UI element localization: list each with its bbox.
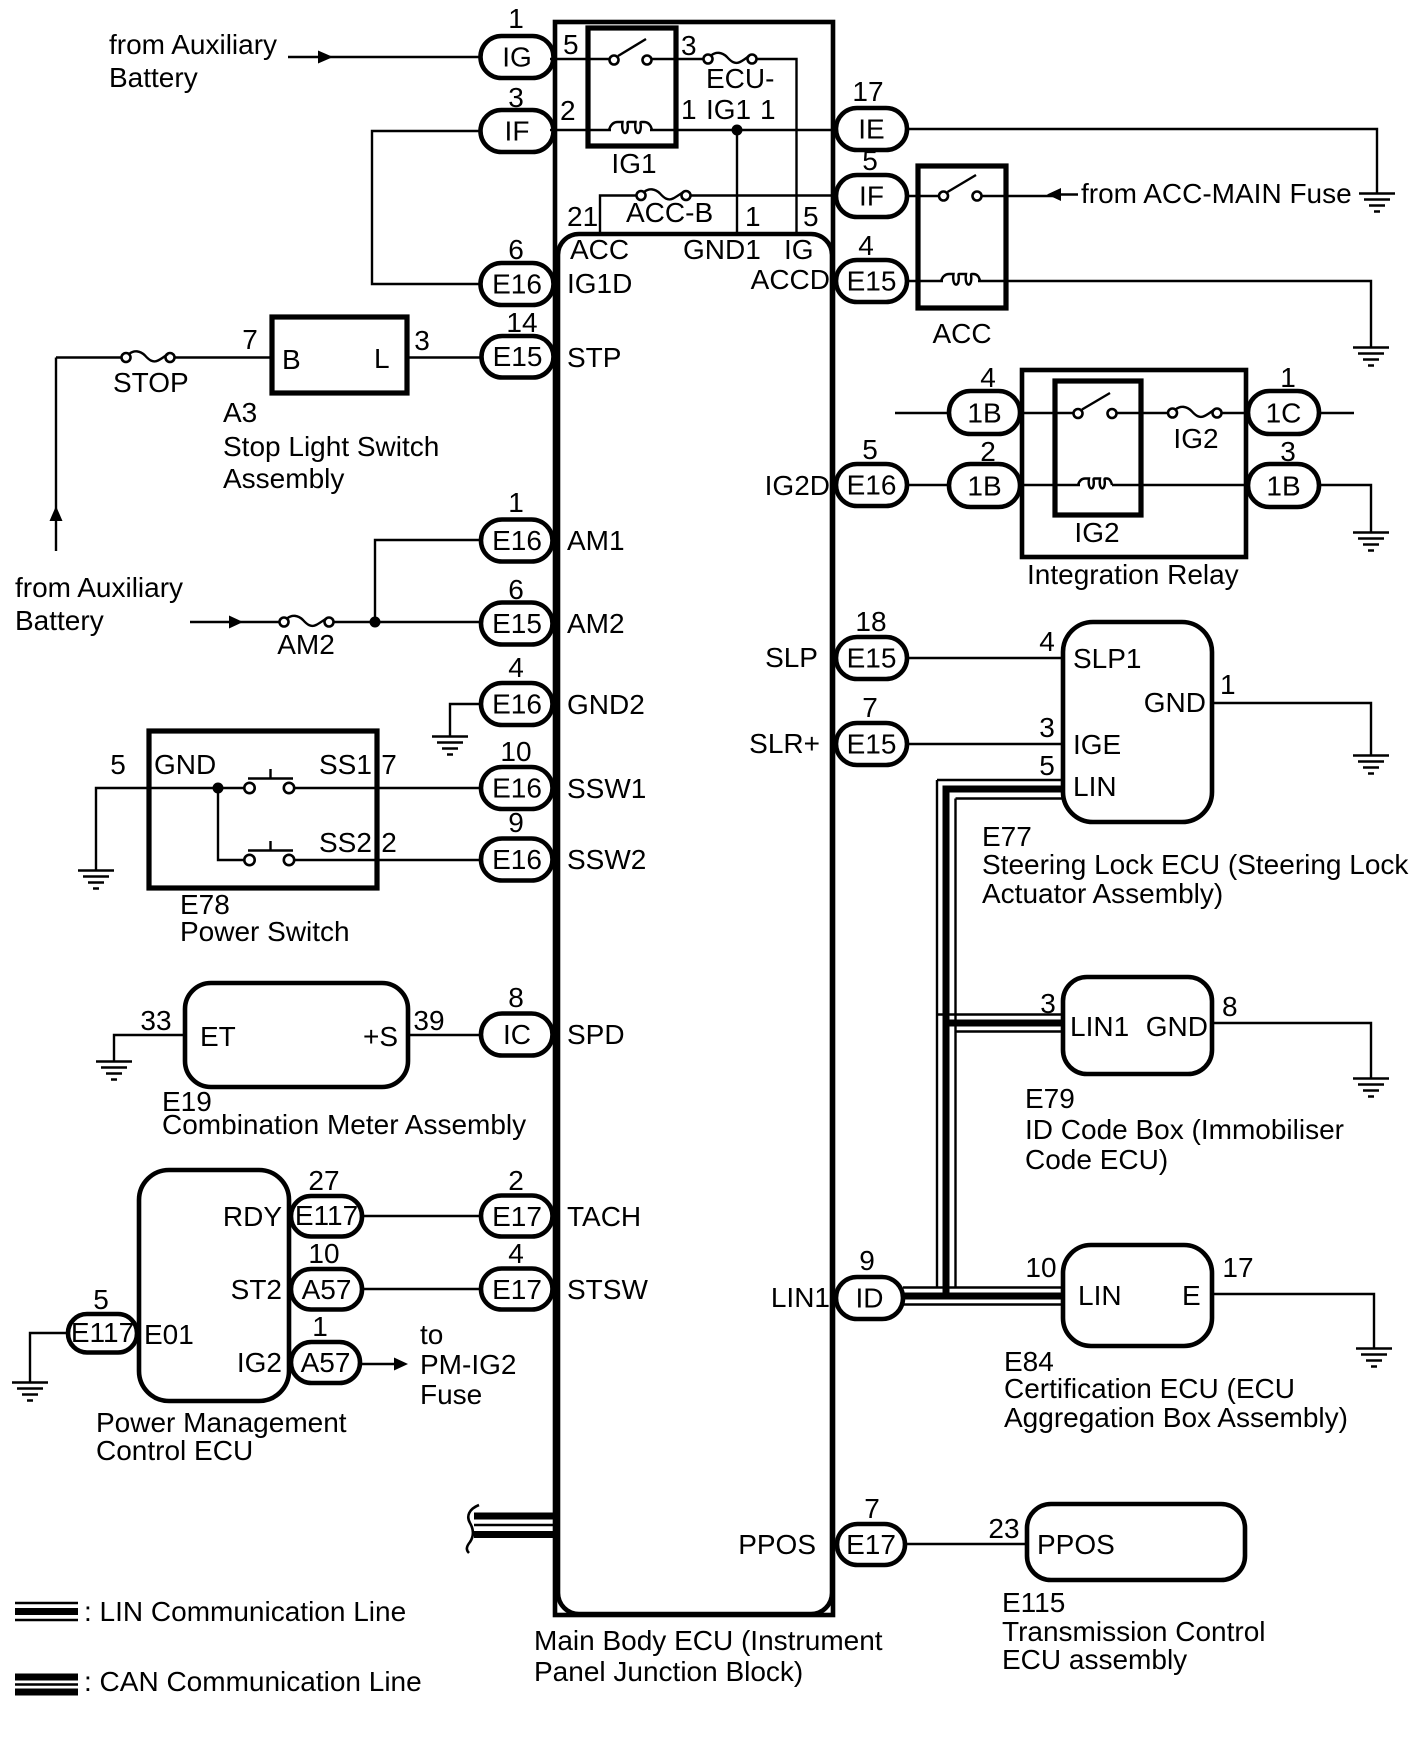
svg-text:PPOS: PPOS bbox=[1037, 1529, 1115, 1560]
svg-text:LIN1: LIN1 bbox=[771, 1282, 830, 1313]
stop light switch A3 box bbox=[272, 317, 407, 393]
wire ACC switch to ACC-MAIN bbox=[982, 195, 1062, 197]
transmission control ECU E115 box bbox=[1027, 1504, 1245, 1580]
ground combination meter bbox=[96, 1062, 132, 1080]
svg-text:IGE: IGE bbox=[1073, 729, 1121, 760]
svg-text:23: 23 bbox=[988, 1513, 1019, 1544]
wire IF pin2 coil to IE bbox=[550, 129, 611, 131]
wire 1C right stub bbox=[1317, 412, 1354, 414]
wire SLR+ to IGE bbox=[905, 743, 1063, 745]
wire A57 to PM-IG2 arrow bbox=[360, 1363, 395, 1365]
LIN bus branch to LIN1 bbox=[937, 1013, 1063, 1015]
fuse STOP bbox=[122, 353, 131, 362]
svg-text:: CAN Communication Line: : CAN Communication Line bbox=[84, 1666, 422, 1697]
svg-text:7: 7 bbox=[381, 749, 397, 780]
svg-text:4: 4 bbox=[508, 1238, 524, 1269]
svg-text:E77: E77 bbox=[982, 821, 1032, 852]
wire E117 to ground bbox=[30, 1333, 68, 1382]
wire E77 GND to ground bbox=[1212, 703, 1371, 755]
coil IG2 bbox=[1078, 479, 1112, 489]
svg-text:17: 17 bbox=[852, 76, 883, 107]
svg-text:9: 9 bbox=[508, 807, 524, 838]
ground E79 bbox=[1353, 1079, 1389, 1097]
CAN stub into main box bbox=[474, 1513, 556, 1520]
wire relay switch to pin3 bbox=[650, 58, 705, 60]
svg-text:IF: IF bbox=[859, 181, 884, 212]
svg-text:ST2: ST2 bbox=[231, 1274, 282, 1305]
svg-text:ECU assembly: ECU assembly bbox=[1002, 1644, 1187, 1675]
svg-text:E16: E16 bbox=[847, 470, 897, 501]
svg-text:PPOS: PPOS bbox=[738, 1529, 816, 1560]
Main Body ECU inner connector block (rounded) bbox=[558, 234, 832, 1614]
svg-text:E15: E15 bbox=[847, 643, 897, 674]
svg-text:ACCD: ACCD bbox=[751, 264, 830, 295]
svg-text:from Auxiliary: from Auxiliary bbox=[15, 572, 183, 603]
svg-text:ACC: ACC bbox=[932, 318, 991, 349]
svg-text:Main Body ECU (Instrument: Main Body ECU (Instrument bbox=[534, 1625, 883, 1656]
power switch E78 box bbox=[149, 731, 377, 888]
wire IE to ground bbox=[905, 129, 1377, 193]
arrow AM2 feed bbox=[229, 616, 243, 629]
switch SS1 button bar bbox=[248, 769, 293, 779]
LIN bus vertical bbox=[936, 780, 938, 1288]
coil ACC bbox=[941, 274, 980, 285]
wire integration top row bbox=[895, 412, 951, 414]
ID code box E79 bbox=[1063, 977, 1212, 1074]
svg-text:Battery: Battery bbox=[15, 605, 104, 636]
svg-text:AM2: AM2 bbox=[567, 608, 625, 639]
switch IG1 contacts bbox=[610, 56, 619, 65]
ground GND2 bbox=[432, 737, 468, 755]
certification ECU E84 box bbox=[1063, 1245, 1212, 1346]
svg-text:10: 10 bbox=[500, 736, 531, 767]
svg-text:IE: IE bbox=[858, 114, 884, 145]
svg-text:E79: E79 bbox=[1025, 1083, 1075, 1114]
wire AM1 branch bbox=[375, 540, 483, 622]
svg-text:Power Management: Power Management bbox=[96, 1407, 347, 1438]
svg-text:IG2: IG2 bbox=[1173, 423, 1218, 454]
ground integration relay bbox=[1353, 533, 1389, 551]
wire SLP to SLP1 bbox=[905, 657, 1063, 659]
svg-text:7: 7 bbox=[862, 692, 878, 723]
svg-text:2: 2 bbox=[508, 1165, 524, 1196]
svg-text:LIN: LIN bbox=[1078, 1280, 1122, 1311]
svg-text:1: 1 bbox=[745, 201, 761, 232]
svg-text:Aggregation Box Assembly): Aggregation Box Assembly) bbox=[1004, 1402, 1348, 1433]
svg-text:E16: E16 bbox=[492, 844, 542, 875]
svg-text:ACC: ACC bbox=[570, 234, 629, 265]
svg-text:1: 1 bbox=[312, 1311, 328, 1342]
svg-text:Control ECU: Control ECU bbox=[96, 1435, 253, 1466]
svg-text:4: 4 bbox=[980, 362, 996, 393]
svg-text:E117: E117 bbox=[71, 1317, 134, 1348]
wire GND to SS2 bbox=[218, 788, 246, 860]
svg-text:2: 2 bbox=[381, 827, 397, 858]
svg-text:IC: IC bbox=[503, 1019, 531, 1050]
svg-text:+S: +S bbox=[363, 1021, 398, 1052]
svg-text:33: 33 bbox=[140, 1005, 171, 1036]
svg-text:SLP: SLP bbox=[765, 642, 818, 673]
CAN break squiggle bbox=[467, 1505, 479, 1553]
svg-text:Panel Junction Block): Panel Junction Block) bbox=[534, 1656, 803, 1687]
svg-text:IG2D: IG2D bbox=[765, 470, 830, 501]
wire IG pin5 into relay bbox=[550, 58, 611, 60]
svg-text:from ACC-MAIN Fuse: from ACC-MAIN Fuse bbox=[1081, 178, 1352, 209]
wire IF to IG1D external bbox=[372, 131, 480, 284]
svg-text:10: 10 bbox=[308, 1238, 339, 1269]
svg-text:Integration Relay: Integration Relay bbox=[1027, 559, 1239, 590]
coil IG1 bbox=[609, 122, 652, 133]
svg-text:LIN: LIN bbox=[1073, 771, 1117, 802]
svg-text:Combination Meter Assembly: Combination Meter Assembly bbox=[162, 1109, 526, 1140]
svg-text:5: 5 bbox=[563, 29, 579, 60]
svg-text:18: 18 bbox=[855, 606, 886, 637]
switch SS2 button bar bbox=[248, 841, 293, 851]
arrow to PM-IG2 Fuse bbox=[394, 1358, 408, 1371]
svg-text:LIN1: LIN1 bbox=[1070, 1011, 1129, 1042]
svg-text:14: 14 bbox=[506, 307, 537, 338]
wire GND2 to ground bbox=[450, 704, 482, 736]
fuse IG2 bbox=[1168, 409, 1177, 418]
fuse ACC-B bbox=[637, 191, 646, 200]
wire STOP feed vertical bbox=[55, 358, 57, 552]
svg-text:1: 1 bbox=[681, 94, 697, 125]
svg-text:E15: E15 bbox=[847, 729, 897, 760]
svg-text:1: 1 bbox=[1280, 362, 1296, 393]
svg-text:1: 1 bbox=[508, 3, 524, 34]
junction node AM bbox=[370, 617, 381, 628]
svg-text:1: 1 bbox=[508, 487, 524, 518]
svg-text:Battery: Battery bbox=[109, 62, 198, 93]
ground E77 bbox=[1353, 756, 1389, 774]
svg-text:A57: A57 bbox=[302, 1274, 352, 1305]
svg-text:1: 1 bbox=[1220, 669, 1236, 700]
wire coil to 1B pin3 bbox=[1112, 484, 1250, 486]
svg-text:E115: E115 bbox=[1002, 1587, 1065, 1618]
relay ACC box bbox=[918, 166, 1006, 308]
wire switch to fuse IG2 bbox=[1117, 412, 1170, 414]
svg-text:21: 21 bbox=[567, 201, 598, 232]
svg-text:A57: A57 bbox=[301, 1347, 351, 1378]
svg-text:SLP1: SLP1 bbox=[1073, 643, 1142, 674]
svg-text:Fuse: Fuse bbox=[420, 1379, 482, 1410]
svg-text:GND: GND bbox=[154, 749, 216, 780]
svg-text:GND2: GND2 bbox=[567, 689, 645, 720]
svg-text:1C: 1C bbox=[1266, 398, 1302, 429]
wire IG2D to 1B bbox=[905, 484, 951, 486]
wire from Auxiliary Battery to IG bbox=[288, 56, 482, 58]
legend LIN symbol bbox=[15, 1602, 78, 1604]
svg-text:SS2: SS2 bbox=[319, 827, 372, 858]
svg-text:B: B bbox=[282, 344, 301, 375]
svg-text:1B: 1B bbox=[967, 471, 1001, 502]
svg-text:ET: ET bbox=[200, 1021, 236, 1052]
wire RDY to TACH bbox=[362, 1215, 483, 1217]
svg-text:IG: IG bbox=[502, 42, 532, 73]
svg-text:Transmission Control: Transmission Control bbox=[1002, 1616, 1265, 1647]
wire fuse to IG pin5 vertical bbox=[757, 59, 797, 232]
svg-text:SSW1: SSW1 bbox=[567, 773, 646, 804]
svg-text:IG: IG bbox=[784, 234, 814, 265]
arrow feed IG bbox=[318, 51, 333, 64]
svg-text:SSW2: SSW2 bbox=[567, 844, 646, 875]
svg-text:5: 5 bbox=[803, 201, 819, 232]
junction node GND switch bbox=[213, 783, 224, 794]
wire AM2 feed bbox=[190, 621, 281, 623]
svg-text:Stop Light Switch: Stop Light Switch bbox=[223, 431, 439, 462]
svg-text:E01: E01 bbox=[144, 1319, 194, 1350]
wire IF to ACC relay bbox=[905, 195, 941, 197]
switch ACC lever bbox=[948, 175, 977, 192]
svg-text:IG1D: IG1D bbox=[567, 268, 632, 299]
wire SS2 to SSW2 bbox=[295, 859, 484, 861]
svg-text:E117: E117 bbox=[295, 1200, 358, 1231]
svg-text:E16: E16 bbox=[492, 773, 542, 804]
svg-text:E16: E16 bbox=[492, 689, 542, 720]
svg-text:GND1: GND1 bbox=[683, 234, 761, 265]
svg-text:AM1: AM1 bbox=[567, 525, 625, 556]
relay IG2 inner box bbox=[1055, 381, 1141, 515]
wire ET to ground bbox=[114, 1035, 185, 1061]
arrow from ACC-MAIN Fuse bbox=[1047, 188, 1061, 201]
wire STOP row bbox=[56, 356, 123, 358]
svg-text:E16: E16 bbox=[492, 269, 542, 300]
svg-text:E15: E15 bbox=[492, 608, 542, 639]
svg-text:GND: GND bbox=[1144, 687, 1206, 718]
switch IG1 lever bbox=[618, 39, 646, 56]
wire SS1 to SSW1 bbox=[295, 787, 484, 789]
svg-text:4: 4 bbox=[508, 652, 524, 683]
svg-text:STOP: STOP bbox=[113, 367, 189, 398]
svg-text:STSW: STSW bbox=[567, 1274, 648, 1305]
switch ACC contacts bbox=[939, 192, 948, 201]
svg-text:from Auxiliary: from Auxiliary bbox=[109, 29, 277, 60]
svg-text:E17: E17 bbox=[492, 1274, 542, 1305]
svg-text:ID Code Box (Immobiliser: ID Code Box (Immobiliser bbox=[1025, 1114, 1344, 1145]
svg-text:: LIN Communication Line: : LIN Communication Line bbox=[84, 1596, 406, 1627]
ground power switch bbox=[78, 871, 114, 889]
svg-text:1: 1 bbox=[760, 94, 776, 125]
Integration Relay outer box bbox=[1022, 370, 1246, 557]
svg-text:AM2: AM2 bbox=[277, 629, 335, 660]
svg-text:4: 4 bbox=[858, 230, 874, 261]
svg-text:TACH: TACH bbox=[567, 1201, 641, 1232]
svg-text:17: 17 bbox=[1222, 1252, 1253, 1283]
svg-text:E: E bbox=[1182, 1280, 1201, 1311]
svg-text:SLR+: SLR+ bbox=[749, 728, 820, 759]
svg-text:to: to bbox=[420, 1319, 443, 1350]
svg-text:9: 9 bbox=[859, 1245, 875, 1276]
wire GND1 vertical bbox=[736, 130, 738, 232]
svg-text:39: 39 bbox=[413, 1005, 444, 1036]
svg-text:E16: E16 bbox=[492, 525, 542, 556]
svg-text:10: 10 bbox=[1025, 1252, 1056, 1283]
svg-text:E17: E17 bbox=[492, 1201, 542, 1232]
wire E79 GND to ground bbox=[1212, 1023, 1371, 1078]
svg-text:GND: GND bbox=[1146, 1011, 1208, 1042]
svg-text:Assembly: Assembly bbox=[223, 463, 344, 494]
switch IG2 lever bbox=[1082, 393, 1110, 410]
switch IG2 contacts bbox=[1074, 409, 1083, 418]
steering lock ECU E77 box bbox=[1063, 622, 1212, 822]
switch SS1 contacts bbox=[244, 783, 254, 793]
svg-text:Certification ECU (ECU: Certification ECU (ECU bbox=[1004, 1373, 1295, 1404]
svg-text:5: 5 bbox=[862, 145, 878, 176]
wire ST2 to STSW bbox=[362, 1288, 483, 1290]
svg-text:E15: E15 bbox=[847, 266, 897, 297]
svg-text:SPD: SPD bbox=[567, 1019, 625, 1050]
svg-text:ACC-B: ACC-B bbox=[626, 197, 713, 228]
svg-text:3: 3 bbox=[681, 30, 697, 61]
svg-text:IF: IF bbox=[505, 116, 530, 147]
wire 1B to switch bbox=[1018, 412, 1075, 414]
svg-text:5: 5 bbox=[93, 1284, 109, 1315]
fuse AM2 bbox=[280, 618, 289, 627]
svg-text:L: L bbox=[374, 343, 390, 374]
junction node IG1-1 bbox=[732, 125, 743, 136]
svg-text:ECU-: ECU- bbox=[706, 63, 774, 94]
svg-text:1B: 1B bbox=[1266, 471, 1300, 502]
wire 1B to coil IG2 bbox=[1018, 484, 1080, 486]
wire GND to ground bbox=[96, 788, 246, 870]
ground E01 bbox=[12, 1383, 48, 1401]
svg-text:3: 3 bbox=[1040, 988, 1056, 1019]
relay IG1 box bbox=[588, 28, 676, 146]
svg-text:Steering Lock ECU (Steering Lo: Steering Lock ECU (Steering Lock bbox=[982, 849, 1409, 880]
ground ACCD bbox=[1353, 348, 1389, 366]
svg-text:2: 2 bbox=[560, 95, 576, 126]
svg-text:3: 3 bbox=[1039, 712, 1055, 743]
arrow up auxiliary battery bbox=[50, 506, 63, 521]
legend CAN symbol bbox=[15, 1674, 78, 1681]
svg-text:3: 3 bbox=[414, 325, 430, 356]
svg-text:7: 7 bbox=[864, 1493, 880, 1524]
svg-text:IG2: IG2 bbox=[237, 1347, 282, 1378]
wire 1B pin3 to ground bbox=[1317, 485, 1371, 532]
ground IE bbox=[1359, 194, 1395, 212]
svg-text:27: 27 bbox=[308, 1165, 339, 1196]
Main Body ECU outer box bbox=[555, 22, 833, 1615]
wire ACC pin21 to ACC-B fuse to IF bbox=[600, 196, 638, 233]
svg-text:6: 6 bbox=[508, 234, 524, 265]
svg-text:E17: E17 bbox=[846, 1529, 896, 1560]
svg-text:IG2: IG2 bbox=[1074, 517, 1119, 548]
power management control ECU E01 box bbox=[139, 1170, 289, 1401]
ground E84 bbox=[1356, 1349, 1392, 1367]
wire AM2 to E15 bbox=[334, 621, 484, 623]
wire fuse to stop switch bbox=[174, 356, 273, 358]
connector E117 E01 left bbox=[68, 1314, 137, 1353]
switch SS2 contacts bbox=[244, 855, 254, 865]
wire stop switch to STP bbox=[407, 356, 483, 358]
svg-text:E15: E15 bbox=[493, 341, 543, 372]
svg-text:STP: STP bbox=[567, 342, 621, 373]
LIN bus bottom to certification ECU bbox=[903, 1286, 1063, 1288]
svg-text:Actuator Assembly): Actuator Assembly) bbox=[982, 878, 1223, 909]
svg-text:1B: 1B bbox=[967, 398, 1001, 429]
svg-text:7: 7 bbox=[242, 324, 258, 355]
wire ACCD through coil to ground bbox=[905, 280, 943, 282]
svg-text:ID: ID bbox=[856, 1283, 884, 1314]
fuse ECU-IG1 bbox=[704, 55, 713, 64]
svg-text:8: 8 bbox=[1222, 991, 1238, 1022]
svg-text:SS1: SS1 bbox=[319, 749, 372, 780]
svg-text:Code ECU): Code ECU) bbox=[1025, 1144, 1168, 1175]
svg-text:A3: A3 bbox=[223, 397, 257, 428]
wire +S to IC bbox=[408, 1034, 483, 1036]
svg-text:RDY: RDY bbox=[223, 1201, 282, 1232]
svg-text:8: 8 bbox=[508, 982, 524, 1013]
svg-text:Power Switch: Power Switch bbox=[180, 916, 350, 947]
svg-text:IG1: IG1 bbox=[706, 94, 751, 125]
svg-text:IG1: IG1 bbox=[611, 148, 656, 179]
svg-text:5: 5 bbox=[862, 434, 878, 465]
wire fuse to 1C bbox=[1222, 412, 1251, 414]
wire E84 E to ground bbox=[1212, 1294, 1374, 1348]
combination meter E19 box bbox=[185, 983, 408, 1087]
svg-text:4: 4 bbox=[1039, 626, 1055, 657]
LIN bus E77 horizontal bbox=[937, 779, 1063, 781]
svg-text:PM-IG2: PM-IG2 bbox=[420, 1349, 516, 1380]
svg-text:5: 5 bbox=[1039, 750, 1055, 781]
wire PPOS to E115 bbox=[905, 1543, 1027, 1545]
svg-text:5: 5 bbox=[110, 749, 126, 780]
